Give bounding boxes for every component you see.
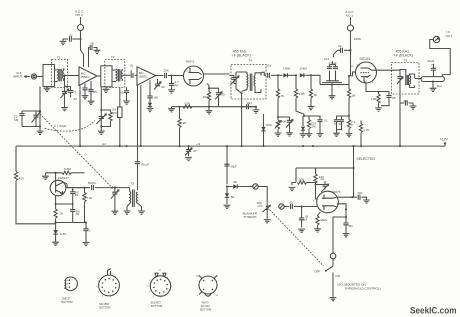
- capacitor .05 under T2: [120, 88, 130, 105]
- svg-text:4.7K: 4.7K: [363, 128, 370, 132]
- wire input shield down to tuning: [39, 87, 41, 127]
- wire rail to bus with resistor: [178, 107, 188, 147]
- svg-text:+12V: +12V: [440, 137, 449, 141]
- capacitor .68 under amp U2: [147, 81, 158, 103]
- node T5 bus junction: [399, 145, 401, 147]
- op-amp U2 MC1550G amplifier: [137, 67, 156, 86]
- svg-text:02: 02: [74, 97, 78, 101]
- label BLANKER THRESH: [243, 212, 258, 219]
- svg-text:05: 05: [289, 200, 293, 204]
- ground shield T1: [44, 87, 51, 92]
- svg-text:BOTTOM: BOTTOM: [99, 306, 110, 310]
- svg-text:THRESHOLD CONTROL): THRESHOLD CONTROL): [345, 286, 381, 290]
- ground rail center: [206, 107, 213, 114]
- resistor 420 left supply: [14, 146, 55, 224]
- diode zener 6.8V: [52, 223, 67, 246]
- diode CR2 1N60: [300, 66, 311, 77]
- capacitor .01 beside C1: [65, 87, 77, 98]
- svg-text:N60: N60: [266, 123, 272, 127]
- resistor 100 cathode: [371, 92, 382, 112]
- node bus junction x80: [79, 145, 81, 147]
- svg-text:02: 02: [321, 177, 325, 181]
- transistor Q3 2N5227 oscillator: [50, 172, 69, 196]
- node AGC3 junction: [80, 38, 82, 40]
- dashed link pot to switch: [270, 210, 324, 267]
- svg-text:OUT: OUT: [446, 34, 453, 38]
- wire selected line: [296, 167, 354, 169]
- svg-text:ON: ON: [335, 274, 340, 278]
- svg-text:02: 02: [403, 99, 407, 103]
- svg-text:02: 02: [69, 33, 73, 37]
- wire IF out loop: [430, 40, 450, 77]
- wire amp U1 bottom to bus: [79, 86, 81, 146]
- wire Q1 source network bottom rail: [172, 106, 257, 108]
- svg-text:2N5227: 2N5227: [61, 297, 71, 301]
- op-amp U1 MC1550G amplifier: [79, 67, 97, 86]
- svg-text:5S10427: 5S10427: [151, 300, 162, 304]
- potentiometer 50K col A: [275, 117, 288, 136]
- diode 6E shunt: [224, 187, 235, 209]
- svg-text:5M: 5M: [76, 214, 79, 216]
- capacitor .022 T4 return: [242, 101, 260, 113]
- wire jack to threshold pot: [258, 187, 267, 203]
- svg-text:+12: +12: [102, 143, 107, 146]
- capacitor .1 lower: [83, 223, 92, 246]
- wire AGC no.3 to amp U1 top: [81, 31, 84, 67]
- node diode string junction B: [295, 74, 297, 76]
- svg-text:6.8V: 6.8V: [60, 232, 67, 236]
- transformer T1: [52, 56, 68, 88]
- svg-text:I-F (BLACK): I-F (BLACK): [394, 54, 413, 58]
- connector J1 RF input jack: [31, 74, 36, 79]
- node bus x227: [226, 145, 228, 147]
- svg-text:02: 02: [338, 44, 342, 48]
- svg-text:1N60: 1N60: [283, 66, 291, 70]
- svg-text:T4: T4: [248, 58, 252, 62]
- svg-text:02K: 02K: [185, 102, 191, 106]
- wire source to switch: [333, 217, 346, 253]
- wire Q3 collector to varactor: [63, 182, 90, 187]
- svg-text:μF: μF: [305, 218, 308, 221]
- resistor 100 at Q1 source: [203, 88, 211, 107]
- diode varactor tuning: [111, 188, 119, 215]
- capacitor 4.7PF to ground: [168, 76, 179, 94]
- svg-text:T2: T2: [111, 55, 115, 59]
- capacitor .02 on AGC1: [334, 44, 351, 57]
- svg-text:OFF: OFF: [314, 270, 320, 274]
- svg-text:-05μF: -05μF: [230, 166, 237, 169]
- svg-text:NO.3: NO.3: [75, 13, 83, 17]
- resistor 4.7K col E: [359, 121, 370, 148]
- ground tuning section: [37, 127, 44, 135]
- svg-text:1550G: 1550G: [80, 75, 90, 79]
- diode 6E series: [227, 180, 253, 189]
- svg-text:40673: 40673: [201, 300, 209, 304]
- diode CR to bus: [261, 114, 272, 147]
- node selected junctions: [353, 145, 355, 169]
- svg-text:T5: T5: [404, 58, 408, 62]
- capacitor variable col A: [278, 117, 293, 136]
- wire T2 to C7: [122, 74, 130, 76]
- wire Q1 source down: [207, 84, 209, 89]
- ground rail left: [168, 107, 175, 112]
- node bus junction x313: [312, 145, 314, 147]
- socket SS104 bottom view: [148, 269, 172, 308]
- node Q2 drain junction: [348, 75, 350, 77]
- resistor 5K column: [308, 75, 319, 109]
- test point above switch: [330, 253, 336, 259]
- svg-text:2N5227: 2N5227: [58, 176, 69, 180]
- diode zener col B: [300, 116, 307, 137]
- svg-text:BOTTOM: BOTTOM: [61, 300, 72, 304]
- svg-text:22K: 22K: [163, 69, 169, 73]
- resistor 3K at Q2 drain: [347, 76, 356, 116]
- wire AGC1 line down: [350, 31, 352, 76]
- svg-text:01 02: 01 02: [334, 122, 342, 126]
- svg-text:50K: 50K: [281, 119, 287, 123]
- node amp2 output junction: [171, 75, 173, 77]
- resistor 12K: [314, 168, 325, 185]
- svg-text:05: 05: [221, 93, 225, 97]
- resistor 7K column: [276, 75, 285, 117]
- capacitor 500M coupling: [67, 181, 130, 190]
- resistor 10K gate2: [289, 168, 316, 191]
- trimmer capacitor tuning right section: [96, 88, 106, 128]
- node tuning junction top: [39, 110, 41, 112]
- svg-text:SeekIC.com: SeekIC.com: [410, 304, 457, 315]
- transformer T3 oscillator coil: [124, 182, 145, 215]
- svg-text:6.8M: 6.8M: [64, 167, 71, 171]
- node tuning junction: [39, 126, 41, 128]
- svg-text:20μF: 20μF: [427, 59, 434, 63]
- capacitor C7 .01 coupling: [130, 63, 137, 78]
- resistor box under T2: [118, 88, 122, 147]
- svg-text:001: 001: [358, 191, 363, 195]
- svg-text:FL2: FL2: [437, 84, 443, 88]
- node varactor junction: [114, 187, 116, 189]
- capacitor 635/5M electrolytic emitter: [70, 203, 80, 222]
- svg-text:NO.1: NO.1: [346, 13, 354, 17]
- svg-text:.47: .47: [192, 149, 197, 153]
- svg-text:01: 01: [324, 118, 328, 122]
- node emitter junction: [55, 203, 57, 205]
- dashed mechanical gang diagonal: [40, 114, 113, 189]
- wire V1 plate to T5: [372, 69, 392, 71]
- svg-text:022: 022: [247, 101, 252, 105]
- socket MC1550 bottom view: [96, 269, 120, 310]
- test point AGC NO.3: [75, 10, 84, 31]
- svg-text:SELECTED: SELECTED: [356, 157, 375, 161]
- capacitor 05 blanker input: [284, 200, 317, 209]
- transformer T5 455KHz IF black: [392, 50, 420, 94]
- svg-text:10K: 10K: [299, 178, 305, 182]
- wire amp U1 output to T2: [97, 75, 101, 77]
- diode CR under amp U2: [147, 103, 154, 112]
- capacitor .01 col B: [304, 116, 328, 137]
- label +12V supply: [440, 137, 449, 146]
- node col A junction: [277, 116, 279, 118]
- svg-text:MEG: MEG: [320, 218, 328, 222]
- svg-text:T1: T1: [57, 56, 61, 60]
- wire Q3 emitter down: [56, 194, 64, 204]
- svg-text:01: 01: [130, 63, 134, 67]
- wire Q4 source network: [337, 204, 346, 217]
- svg-text:6E: 6E: [233, 180, 237, 184]
- capacitor .08 at amp U1 top: [89, 42, 101, 67]
- node lower rail junctions: [55, 222, 87, 224]
- svg-text:MC1550: MC1550: [99, 302, 109, 306]
- node 12K junction: [315, 184, 317, 186]
- resistor parallel loop tuning right: [101, 107, 117, 126]
- ground tuning right: [98, 127, 105, 135]
- svg-text:LIN: LIN: [258, 204, 263, 208]
- transformer T2: [105, 55, 125, 87]
- wire amp U2 bottom pair to T3: [137, 85, 139, 162]
- diode CR1 1N60: [283, 66, 296, 77]
- svg-text:5M: 5M: [14, 118, 19, 122]
- svg-text:1550G: 1550G: [138, 75, 148, 79]
- svg-text:I-F (BLACK): I-F (BLACK): [232, 54, 251, 58]
- svg-text:.05 μF: .05 μF: [140, 162, 149, 166]
- capacitor .05 cathode: [381, 92, 396, 106]
- node AGC1 junction: [350, 49, 352, 51]
- potentiometer 50K LIN blanker threshold: [257, 201, 271, 223]
- capacitor 22/5M tuning section left: [14, 111, 25, 127]
- svg-text:3 × 00μF: 3 × 00μF: [54, 124, 66, 128]
- capacitor .01 .02 pair col D: [333, 116, 349, 136]
- label switch mounting note: [337, 282, 381, 290]
- ground T2 shield: [103, 88, 110, 93]
- node col D junction: [348, 115, 350, 117]
- capacitor .05uF in line to T3: [135, 162, 149, 190]
- node col B junction: [303, 115, 305, 117]
- svg-text:.68: .68: [154, 96, 159, 100]
- wire Q4 drain to 001: [336, 196, 352, 198]
- wire amp U2 second vertical to bus: [140, 85, 142, 146]
- svg-text:INPUT: INPUT: [13, 75, 22, 79]
- svg-text:THRESH: THRESH: [244, 215, 257, 219]
- svg-text:5%: 5%: [311, 125, 316, 129]
- wire +12V bus: [16, 145, 445, 147]
- wire bus to blanker diode chain: [226, 146, 228, 184]
- svg-text:+12: +12: [196, 143, 201, 146]
- svg-text:.02: .02: [160, 85, 165, 89]
- resistor 510 col B: [304, 116, 316, 137]
- capacitor .02 below T5: [400, 99, 416, 109]
- dashed gang link curve: [45, 121, 96, 132]
- node blanker junction: [226, 186, 228, 188]
- transistor Q1 40673 first IF amp: [184, 60, 204, 86]
- wire T1 secondary to amp U1: [64, 75, 79, 77]
- capacitor .02 trimmer gate2: [316, 177, 329, 192]
- trimmer capacitor C1 under T1: [61, 76, 69, 111]
- wire V1 cathode network: [366, 83, 389, 92]
- svg-text:BOTTOM: BOTTOM: [151, 304, 162, 308]
- resistor 5.5M feedback: [83, 187, 92, 223]
- node source junctions: [345, 208, 347, 218]
- filter FL2 ceramic: [415, 77, 445, 92]
- node diode string junction C: [310, 74, 312, 76]
- svg-text:100K: 100K: [354, 37, 362, 41]
- resistor 10K in bottom rail: [183, 102, 192, 109]
- svg-text:1N60: 1N60: [300, 66, 308, 70]
- capacitor .001 after T4: [261, 64, 282, 78]
- capacitor .05 second under amp U1: [88, 81, 98, 104]
- capacitor .02 on AGC3 line: [60, 33, 81, 44]
- capacitor 870/5M collector: [70, 189, 79, 205]
- resistor 1K emitter: [54, 204, 64, 223]
- capacitor .02 trimmer under amp U2: [154, 79, 165, 90]
- connector J2 IF output jack: [433, 30, 452, 43]
- svg-text:T3: T3: [130, 182, 134, 186]
- svg-text:100: 100: [371, 97, 376, 101]
- svg-text:40673: 40673: [186, 60, 195, 64]
- tube V1 SS104: [356, 57, 377, 85]
- capacitor pair 2.0uF at Q2 gates: [324, 57, 338, 68]
- wire emitter rail: [56, 203, 73, 205]
- svg-text:420: 420: [19, 176, 24, 180]
- svg-text:BOTTOM: BOTTOM: [200, 308, 211, 312]
- resistor 6.8M base bias: [46, 167, 85, 175]
- node drain junction: [352, 196, 354, 198]
- node rail junctions: [179, 106, 244, 108]
- svg-text:SO 304: SO 304: [201, 304, 210, 308]
- wire selected to drain: [353, 146, 355, 197]
- svg-text:PF: PF: [174, 83, 178, 87]
- wire lower node rail: [56, 222, 86, 224]
- node bus junction x303: [302, 145, 304, 147]
- svg-text:01: 01: [73, 90, 77, 94]
- capacitor 22K output coupling: [156, 69, 184, 79]
- capacitor 05 source bypass: [343, 217, 354, 237]
- capacitor .05 under amp U1: [82, 84, 93, 99]
- svg-text:001: 001: [266, 64, 271, 68]
- svg-text:.05: .05: [391, 96, 396, 100]
- svg-text:6E: 6E: [231, 195, 235, 199]
- svg-text:SS104: SS104: [359, 57, 370, 61]
- svg-text:5%: 5%: [112, 111, 117, 115]
- wire input jack to T1: [37, 76, 43, 78]
- capacitor .68uF gate: [298, 207, 308, 233]
- svg-text:500M: 500M: [88, 181, 96, 185]
- trimmer capacitor main tuning C: [32, 111, 41, 127]
- transformer T4 455KHz IF black: [230, 50, 267, 99]
- svg-text:5.5M: 5.5M: [87, 198, 92, 200]
- ground bias left: [42, 173, 49, 180]
- node bus junction x140.8: [140, 145, 142, 147]
- capacitor .47 bus bypass: [185, 145, 197, 160]
- wire T5 center to bus: [399, 94, 401, 146]
- shield can around T1 primary: [43, 65, 55, 87]
- resistor 2.2K col D: [346, 116, 356, 137]
- resistor 6.8K column: [294, 75, 306, 115]
- svg-text:5M: 5M: [75, 195, 78, 197]
- node gate1 junction: [301, 206, 303, 208]
- wire Q2 drain to V1 grid: [349, 72, 356, 76]
- transistor Q2 blanker gate dual-gate MOSFET: [311, 71, 349, 99]
- capacitor 001 drain: [353, 191, 370, 203]
- svg-text:500: 500: [348, 225, 353, 228]
- svg-text:05: 05: [120, 90, 124, 94]
- capacitor .05 at Q1 source: [209, 88, 225, 107]
- node bus junction x122: [119, 145, 121, 147]
- svg-text:05: 05: [93, 90, 97, 94]
- wire Q1 drain to T4: [204, 73, 230, 75]
- node T4 bus junction: [241, 145, 243, 147]
- capacitor .05uF blanker feed: [224, 164, 237, 168]
- svg-text:08: 08: [90, 42, 94, 46]
- test point AGC NO.1: [345, 10, 354, 31]
- socket 40673 SO-304 bottom view: [196, 275, 219, 311]
- svg-text:6.8K: 6.8K: [299, 92, 306, 96]
- svg-text:100: 100: [203, 95, 208, 99]
- transistor Q4 40673 blanker: [313, 190, 341, 213]
- shield can around T2 primary: [101, 66, 112, 87]
- wire 12K node into Q4: [316, 185, 318, 200]
- resistor MEG Q4: [314, 212, 328, 232]
- node RF INPUT label: [13, 71, 30, 79]
- node junction under T1 output: [64, 75, 66, 77]
- test point jack 2: [279, 204, 284, 209]
- switch S1 OFF/ON: [314, 259, 340, 301]
- test point blanker jack: [253, 184, 258, 189]
- node diode string junction A: [277, 74, 279, 76]
- capacitor 20uF electrolytic: [427, 59, 436, 77]
- node Q1 source junction: [208, 87, 210, 89]
- socket 2N5227 bottom view: [61, 277, 77, 304]
- wire T4 center tap to bus: [241, 93, 243, 146]
- wire tuning section frame: [22, 111, 40, 127]
